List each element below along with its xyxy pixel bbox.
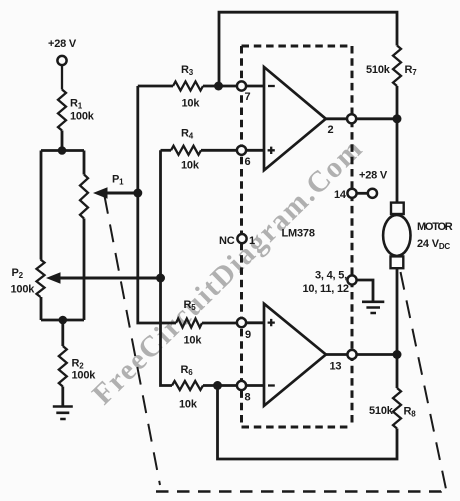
svg-text:510k: 510k: [369, 405, 394, 417]
wire P1 bottom to bar: [83, 219, 86, 321]
wire output2 node down to motor: [396, 119, 399, 203]
op-amp U1A minus: [268, 85, 275, 87]
node P1 wiper junction: [133, 189, 142, 198]
wire R5 to pin 9: [202, 322, 238, 325]
wire right leg to P1: [83, 151, 86, 175]
potentiometer P1 wiper arrow: [93, 187, 108, 198]
resistor R5: [176, 319, 202, 328]
ground (pins 3,4,5,10,11,12): [362, 302, 384, 313]
resistor R4: [171, 146, 201, 155]
mechanical linkage dashed line (bottom): [156, 489, 445, 492]
motor M1 body: [383, 215, 410, 256]
svg-text:14: 14: [334, 189, 347, 201]
wire op-amp A output: [326, 117, 397, 120]
wire R6 to pin 8: [203, 384, 238, 387]
svg-text:9: 9: [245, 329, 251, 341]
ground (R2): [53, 407, 73, 420]
node R3/feedback junction: [214, 82, 223, 91]
wire pin 3,4,5 to ground: [356, 280, 373, 301]
wire pin 6 to op-amp A non-inverting input: [246, 149, 264, 152]
op-amp U1B: [264, 304, 326, 406]
terminal +28V (pin 14): [368, 189, 377, 198]
wire P1 wiper to node: [104, 192, 138, 195]
wire P1 wiper vertical (node A: to R3 and R5): [138, 86, 176, 323]
svg-text:10k: 10k: [184, 335, 203, 347]
pin 6: [237, 146, 246, 155]
wire pin 7 to op-amp A inverting input: [246, 85, 264, 88]
svg-text:NC: NC: [219, 235, 235, 247]
wire top feedback rail (pin7 up, across, down to R7): [219, 12, 397, 84]
potentiometer P2 body: [37, 260, 45, 298]
wire +28V terminal to R1: [61, 65, 63, 90]
pin 14: [347, 189, 356, 198]
svg-text:100k: 100k: [70, 111, 95, 123]
wire output13 node to R8: [396, 355, 399, 389]
svg-text:+28 V: +28 V: [359, 170, 388, 182]
node R6/feedback junction: [213, 381, 222, 390]
wire bottom feedback rail (pin8 node down, across, up to R8): [218, 386, 398, 460]
terminal +28V (top left): [57, 56, 66, 65]
potentiometer P2 wiper arrow: [46, 272, 61, 283]
wire P2 wiper vertical (node B: to R4 and R6): [161, 150, 173, 385]
svg-text:10k: 10k: [181, 160, 200, 172]
mechanical linkage dashed line (left diagonal): [105, 196, 161, 485]
wire pin 9 to op-amp B non-inverting input: [246, 321, 264, 324]
svg-text:10, 11, 12: 10, 11, 12: [303, 283, 349, 295]
op-amp U1B plus: [268, 319, 275, 326]
resistor R1: [58, 90, 66, 131]
mechanical linkage dashed line (right diagonal): [401, 272, 447, 489]
svg-text:8: 8: [245, 392, 251, 404]
svg-text:+28 V: +28 V: [48, 38, 77, 50]
wire R3 left: [138, 85, 173, 88]
pin 7: [237, 81, 246, 90]
svg-text:LM378: LM378: [282, 228, 315, 240]
svg-text:2: 2: [328, 124, 334, 136]
resistor R6: [172, 381, 203, 390]
wire motor bottom to output13 node: [396, 268, 399, 355]
svg-text:100k: 100k: [72, 370, 97, 382]
wire R2 bottom to ground: [61, 387, 64, 407]
svg-text:10k: 10k: [179, 399, 198, 411]
svg-text:1: 1: [249, 235, 255, 247]
node R1/divider junction: [58, 146, 67, 155]
pin 8: [237, 381, 246, 390]
wire R2 top: [61, 320, 64, 346]
potentiometer P1 body: [80, 175, 88, 219]
op-amp U1B minus: [268, 384, 275, 386]
svg-text:MOTOR: MOTOR: [417, 221, 453, 233]
motor M1 bottom brush: [391, 256, 404, 268]
svg-text:13: 13: [330, 361, 342, 373]
resistor R8: [393, 388, 401, 429]
resistor R3: [173, 82, 203, 91]
svg-text:3, 4, 5,: 3, 4, 5,: [315, 270, 347, 282]
svg-text:510k: 510k: [366, 64, 391, 76]
wire pin14 to +28V terminal: [356, 192, 368, 195]
node output 2 junction: [393, 114, 402, 123]
wire P2 bottom to bar: [40, 297, 43, 320]
node P2 wiper junction: [156, 274, 165, 283]
resistor R7: [393, 46, 401, 87]
pin 9: [237, 318, 246, 327]
pin 1 NC: [237, 234, 246, 243]
svg-text:10k: 10k: [182, 98, 201, 110]
wire pin 8 to op-amp B inverting input: [246, 384, 264, 387]
op-amp U1A: [264, 67, 326, 170]
motor M1 top brush: [391, 203, 404, 214]
pin 3,4,5: [347, 275, 356, 284]
IC outline LM378 (dashed box): [242, 46, 353, 427]
node R2 junction: [59, 316, 68, 325]
wire pot top bar: [41, 149, 84, 152]
wire pot bottom bar: [41, 319, 84, 322]
svg-text:7: 7: [245, 91, 251, 103]
pin 2 output: [347, 114, 356, 123]
wire op-amp B output: [326, 353, 397, 356]
wire R1 bottom to bar: [61, 131, 64, 151]
svg-text:100k: 100k: [11, 284, 36, 296]
wire R7 bottom to output node: [396, 86, 399, 119]
node output 13 junction: [393, 350, 402, 359]
wire R4 to pin 6: [201, 149, 238, 152]
pin 13 output: [347, 350, 356, 359]
wire R3 to pin 7: [203, 85, 238, 88]
op-amp U1A plus: [268, 147, 275, 154]
resistor R2: [59, 346, 67, 387]
wire P2 wiper to node: [57, 277, 161, 280]
wire R4 left: [161, 149, 172, 152]
wire left rail to P2: [40, 151, 43, 260]
svg-text:6: 6: [245, 156, 251, 168]
